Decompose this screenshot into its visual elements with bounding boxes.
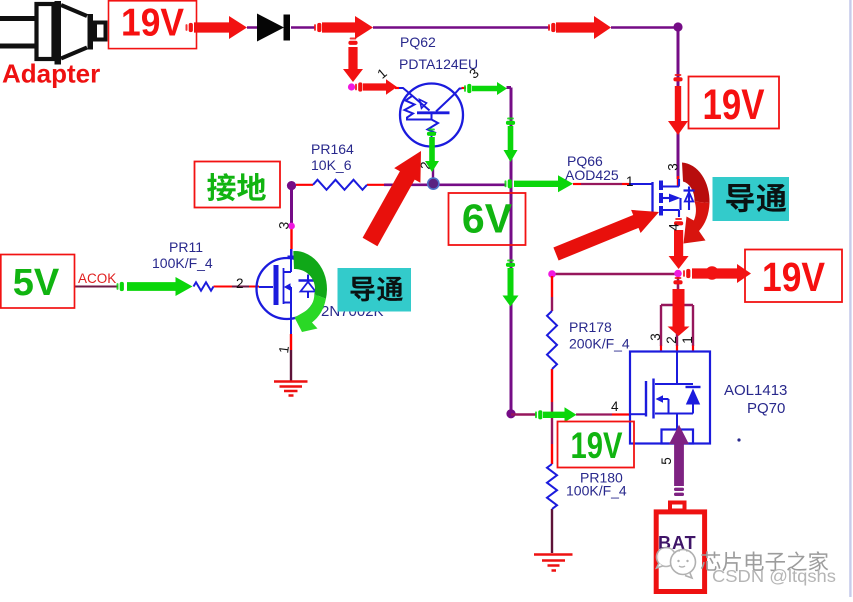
wire PQ62 pin2 stub (432, 168, 434, 182)
node magenta pin dot 2N7002K pin3 (288, 223, 295, 230)
flow arrow ACOK (117, 277, 193, 296)
flow arrow 6V net lower (503, 260, 519, 307)
callout 导通 box on 2N7002K (338, 268, 412, 312)
node corner dot 6V net bottom (506, 409, 515, 418)
mosfet block AOL1413 PQ70 (630, 352, 710, 444)
callout 导通 box on PQ66 (713, 177, 790, 221)
label PR164 10K_6 (311, 141, 354, 173)
transistor Q PQ66 AOD425 (653, 179, 695, 217)
wire PR164 net (gate node) horizontal (296, 184, 506, 186)
svg-text:PR178: PR178 (569, 319, 612, 335)
svg-text:AOD425: AOD425 (565, 167, 619, 183)
svg-text:PR164: PR164 (311, 141, 354, 157)
resistor PR180 (547, 464, 557, 509)
annotation arrow pointing at PQ66 (553, 210, 659, 261)
svg-text:ACOK: ACOK (78, 271, 116, 286)
svg-text:200K/F_4: 200K/F_4 (569, 336, 630, 352)
wire gate node to PQ66 gate (573, 183, 652, 185)
flow arrow battery up to pin5 (669, 425, 689, 496)
flow arrow down 19V to PQ66 source (668, 74, 688, 135)
ground below PR180 (534, 555, 573, 571)
node junction dot top-right corner (673, 22, 682, 31)
label PR178 200K/F_4 (569, 319, 630, 352)
svg-text:100K/F_4: 100K/F_4 (566, 483, 627, 499)
svg-text:4: 4 (667, 223, 682, 231)
node 5V box (1, 255, 75, 309)
node magenta dot PQ66 drain junction (674, 270, 682, 278)
svg-text:1: 1 (626, 174, 634, 189)
svg-text:19V: 19V (703, 81, 765, 129)
svg-text:3: 3 (648, 333, 663, 341)
diode D1 (257, 14, 290, 42)
callout 19V box top right (689, 77, 780, 130)
svg-text:5: 5 (659, 457, 674, 465)
wire adapter to diode (19V top rail) (247, 26, 678, 29)
flow arrow into AOL1413 pin4 (535, 407, 577, 422)
flow arrow PQ62 pin3 out (464, 82, 507, 95)
svg-text:1: 1 (680, 336, 695, 344)
wire PQ66 drain to AOL1413 pins branch (661, 274, 693, 352)
svg-text:Adapter: Adapter (2, 59, 100, 89)
resistor PR164 (313, 180, 367, 190)
wire PQ66 drain node horizontal (552, 273, 678, 276)
callout 接地 box (195, 162, 281, 208)
battery BAT (656, 503, 704, 592)
svg-text:2: 2 (664, 336, 679, 344)
resistor PR11 (194, 282, 214, 290)
flow arrow into PQ62 pin1 (355, 79, 397, 95)
wire PR178 PR180 divider chain (551, 276, 553, 553)
watermark text 芯片电子之家 (701, 551, 828, 571)
wire 6V vertical net (507, 88, 512, 415)
callout 19V box mid right (745, 250, 842, 303)
flow arrow gate node to PQ66 gate (505, 175, 574, 192)
transistor Q 2N7002K (257, 249, 318, 319)
watermark logo bubbles (657, 548, 696, 579)
ground below 2N7002K (274, 382, 308, 396)
node junction dot PQ62 base (428, 178, 439, 189)
svg-text:AOL1413: AOL1413 (724, 382, 787, 399)
label PR11 100K/F_4 (152, 239, 213, 271)
svg-text:100K/F_4: 100K/F_4 (152, 255, 213, 271)
node magenta dot PR178 top (548, 270, 556, 278)
svg-text:CSDN @ltqshs: CSDN @ltqshs (712, 566, 836, 586)
wire 2N7002K source to ground (290, 319, 292, 381)
svg-text:PQ62: PQ62 (400, 34, 436, 50)
adapter plug icon (0, 1, 106, 65)
resistor PR178 (547, 311, 557, 369)
svg-text:2: 2 (236, 276, 244, 291)
stray dot (737, 438, 740, 441)
red conduction crescent on PQ66 (682, 163, 710, 244)
svg-text:19V: 19V (571, 425, 623, 466)
label PR180 100K/F_4 (566, 470, 627, 499)
node junction dot at PR164 left (287, 181, 296, 190)
green conduction crescent on 2N7002K (293, 251, 327, 332)
flow arrow toward PQ66 (548, 16, 611, 39)
wire 2N7002K drain up to gate node (290, 186, 293, 258)
flow arrow diode output (314, 16, 373, 39)
flow arrow PQ62 pin2 down (425, 129, 439, 173)
node 19V source box (109, 1, 197, 49)
flow arrow 19V into diode (186, 16, 248, 39)
svg-text:19V: 19V (121, 2, 184, 45)
annotation arrow pointing at PQ62 (363, 151, 421, 246)
wire vertical drop to PQ66 drain (node 19V) (677, 26, 680, 187)
svg-text:PQ70: PQ70 (747, 400, 785, 417)
svg-text:10K_6: 10K_6 (311, 157, 352, 173)
flow arrow down into AOL1413 top pins (668, 277, 690, 336)
flow arrow down to PQ62 pin1 branch (343, 38, 363, 83)
svg-text:5V: 5V (13, 262, 60, 304)
flow arrow drain junction right to 19V (683, 264, 751, 283)
svg-text:PR11: PR11 (169, 239, 203, 255)
callout 6V box (449, 193, 526, 245)
callout 19V box near pin4 (green) (558, 422, 635, 468)
svg-text:19V: 19V (762, 254, 826, 300)
svg-text:6V: 6V (462, 196, 513, 242)
transistor Q PQ62 PDTA124EU (395, 84, 466, 148)
wire AOL1413 gate pin4 horizontal (511, 413, 631, 416)
svg-text:3: 3 (666, 163, 681, 171)
svg-text:4: 4 (611, 399, 619, 414)
wire ACOK signal (75, 286, 260, 288)
node magenta dot PQ62 pin1 (348, 83, 355, 90)
flow arrow PQ66 drain down (669, 218, 689, 269)
flow arrow 6V net upper (504, 118, 518, 163)
